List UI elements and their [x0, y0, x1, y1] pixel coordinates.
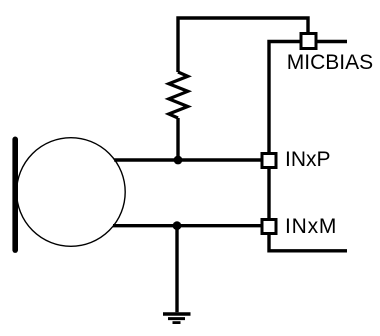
- microphone MK1 (capsule circle): [17, 138, 126, 247]
- wire: mic to INxP pin: [114, 158, 261, 161]
- wire: INxM pin bottom stub right: [269, 234, 347, 251]
- pin INxP (square terminal): [262, 154, 276, 168]
- resistor R1: [169, 72, 188, 118]
- svg-text:INxM: INxM: [285, 215, 337, 238]
- pin INxM (square terminal): [262, 220, 276, 234]
- wire: top rail from resistor top to MICBIAS drop: [178, 18, 308, 72]
- svg-text:INxP: INxP: [285, 148, 331, 171]
- svg-text:MICBIAS: MICBIAS: [287, 51, 373, 74]
- wire: INxP pin to INxM pin: [267, 169, 270, 218]
- wire: INxM node down to ground: [175, 226, 178, 313]
- pin MICBIAS (square terminal): [301, 34, 316, 49]
- wire: resistor bottom to INxP node: [176, 118, 179, 160]
- node junction dot on INxP wire: [174, 156, 183, 165]
- wire: MICBIAS right stub: [318, 40, 348, 43]
- node junction dot on INxM wire: [173, 221, 182, 230]
- ground: [163, 314, 191, 323]
- wire: MICBIAS left, down to INxP pin: [269, 42, 300, 153]
- wire: mic to INxM pin: [113, 224, 261, 227]
- microphone back-plate bar: [12, 139, 18, 250]
